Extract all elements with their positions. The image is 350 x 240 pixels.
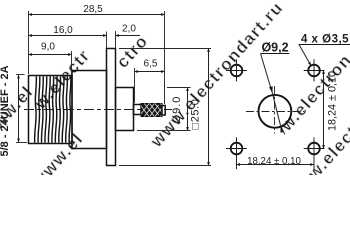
svg-text:5/8 - 24UNEF - 2A: 5/8 - 24UNEF - 2A xyxy=(0,65,11,156)
dim 2,0 flange thickness xyxy=(116,35,141,37)
svg-text:18,24 ± 0,10: 18,24 ± 0,10 xyxy=(327,71,339,131)
dim 16,0 xyxy=(29,35,107,37)
dim 18,24 +/- 0,10 horizontal xyxy=(237,164,314,166)
right view: mounting hole top-left xyxy=(231,65,320,155)
svg-text:□25.0: □25.0 xyxy=(190,98,202,129)
svg-text:16,0: 16,0 xyxy=(53,25,73,36)
square flange (side view) xyxy=(107,49,116,166)
end cap of solder pot xyxy=(162,106,165,116)
svg-text:9,0: 9,0 xyxy=(41,42,55,53)
svg-text:18,24 ± 0,10: 18,24 ± 0,10 xyxy=(247,156,301,167)
rear cylinder dia 9.0 xyxy=(116,88,134,131)
center hole dia 9,2 xyxy=(259,95,292,128)
svg-text:Ø9.0: Ø9.0 xyxy=(171,96,183,124)
thread designation 5/8-24UNEF-2A xyxy=(18,75,20,142)
hole center marks xyxy=(226,59,325,169)
coupling nut thread body 5/8-24UNEF xyxy=(29,76,73,144)
svg-text:28,5: 28,5 xyxy=(83,4,103,15)
svg-text:4 x Ø3,5: 4 x Ø3,5 xyxy=(301,34,349,46)
dim 6,5 solder pot length xyxy=(135,71,165,73)
connector body hex section xyxy=(72,71,107,149)
dim 28,5 overall length xyxy=(29,14,165,16)
dim square 25.0 (flange) xyxy=(208,49,210,166)
neck behind knurl xyxy=(134,105,142,115)
centerline (left view axis) xyxy=(24,109,172,111)
svg-text:Ø9,2: Ø9,2 xyxy=(261,41,288,55)
dim 9,0 thread length xyxy=(29,54,72,56)
svg-text:6,5: 6,5 xyxy=(144,58,158,69)
thread crest lines xyxy=(35,76,71,142)
knurled solder pot xyxy=(141,104,162,117)
svg-text:2,0: 2,0 xyxy=(122,24,136,35)
dim 18,24 +/- 0,10 vertical xyxy=(323,71,325,149)
dim dia 9.0 (rear cylinder) xyxy=(187,88,189,131)
